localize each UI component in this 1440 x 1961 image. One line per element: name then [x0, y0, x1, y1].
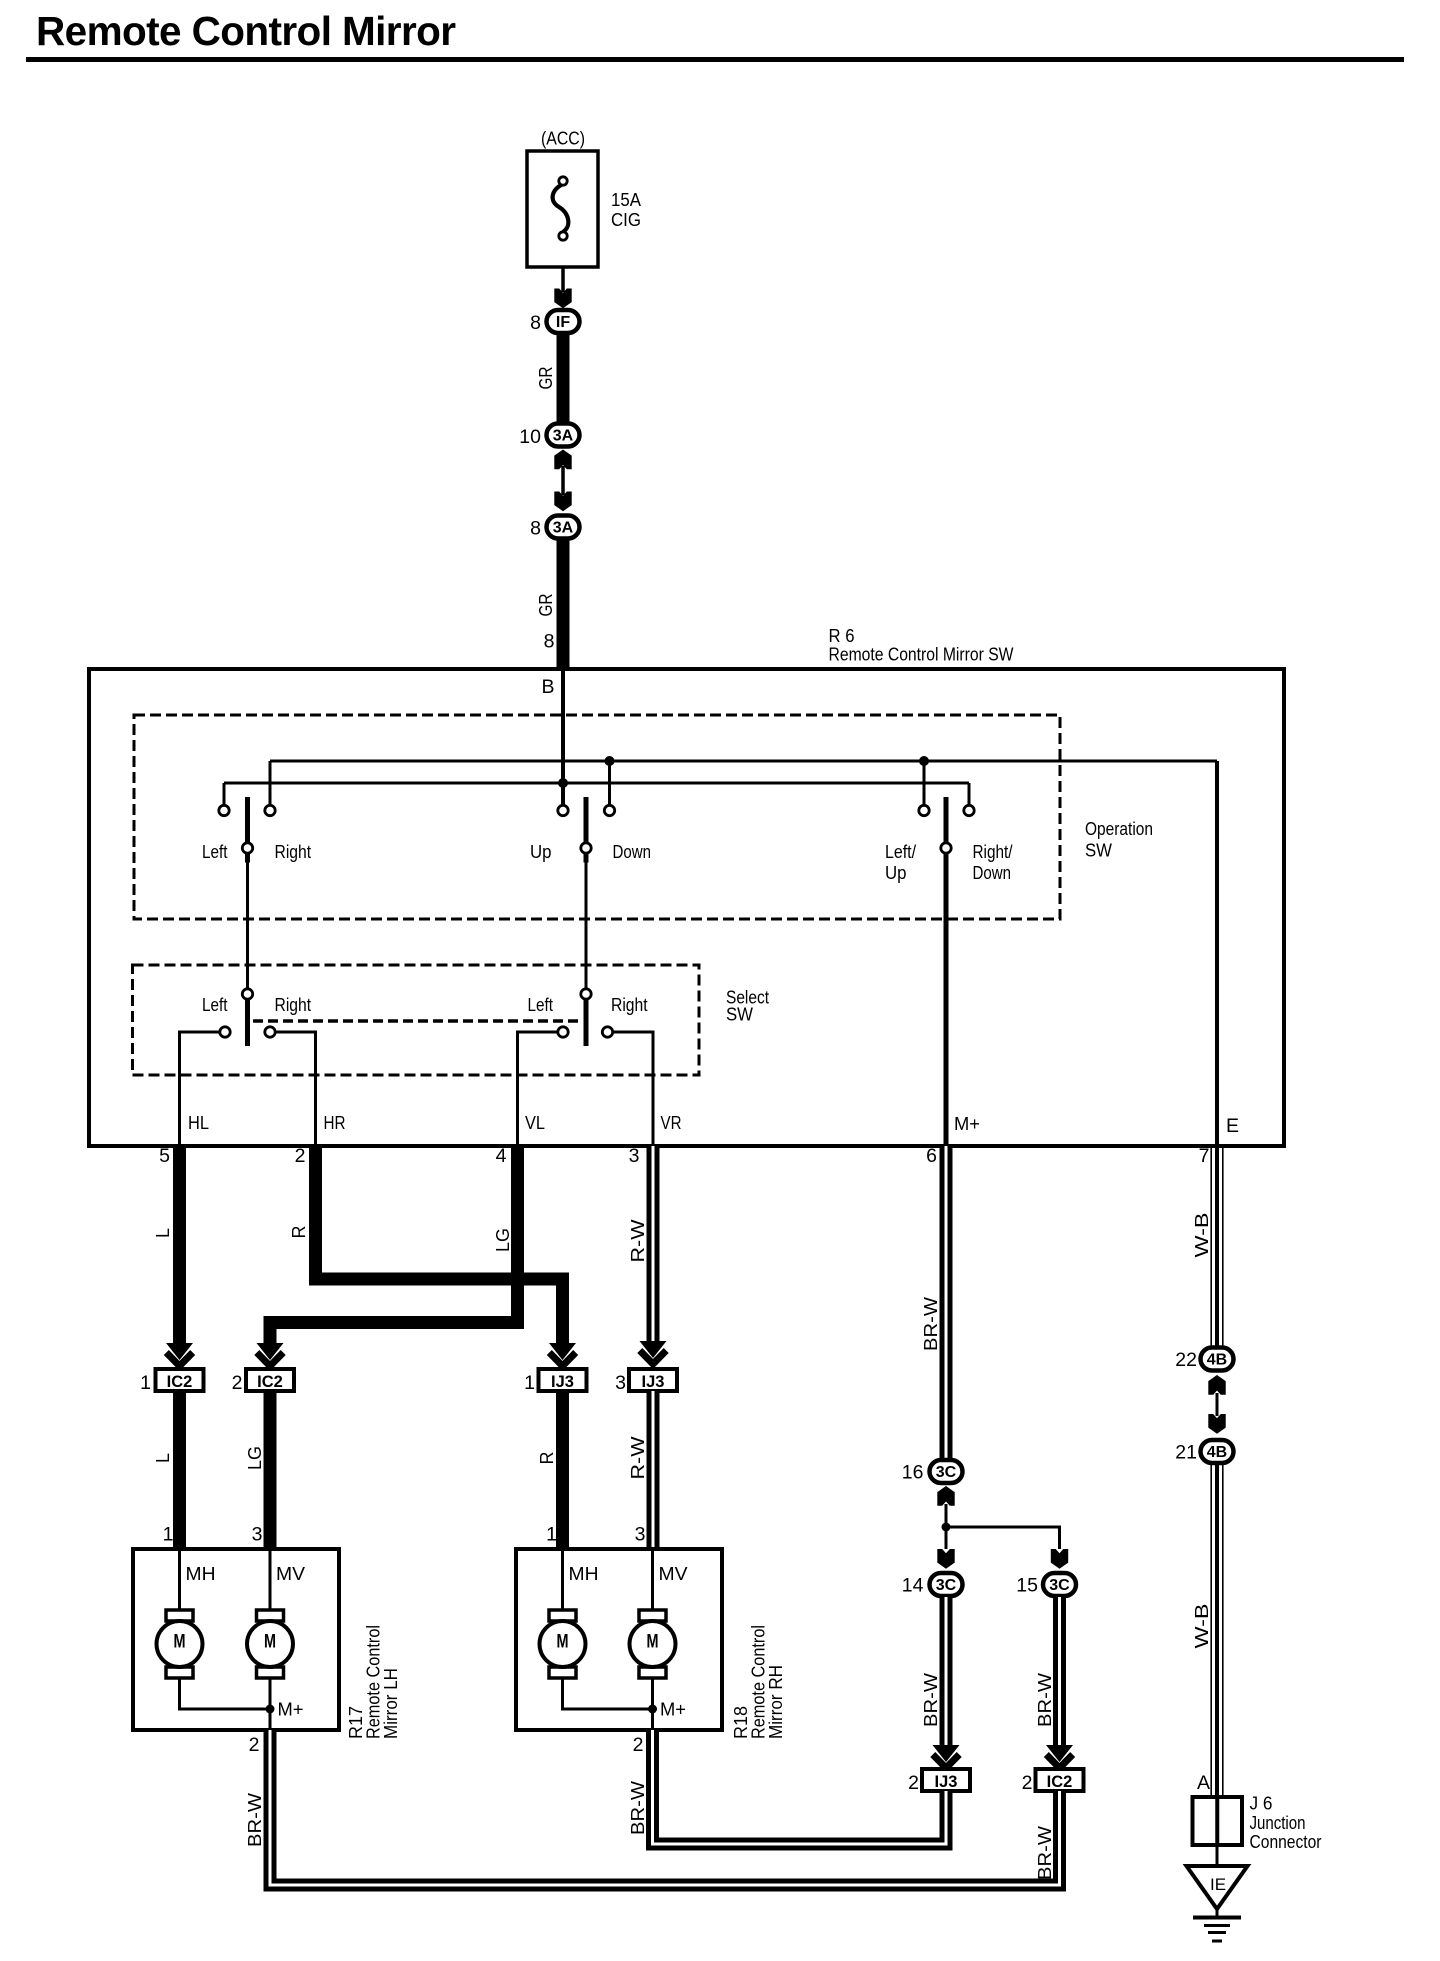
svg-text:VL: VL: [525, 1113, 545, 1133]
svg-text:3A: 3A: [553, 520, 574, 537]
svg-text:14: 14: [902, 1575, 924, 1597]
svg-text:L: L: [153, 1453, 173, 1463]
svg-text:IE: IE: [1210, 1875, 1226, 1894]
mirror LH box: [133, 1549, 339, 1730]
svg-text:4: 4: [496, 1145, 507, 1167]
ground bars: [1193, 1916, 1241, 1920]
wire LG thick crossover: [270, 1146, 518, 1343]
wire motor outputs LH: [180, 1678, 271, 1709]
svg-text:R-W: R-W: [628, 1436, 648, 1479]
svg-text:SW: SW: [726, 1005, 753, 1025]
svg-text:R 6: R 6: [829, 626, 855, 646]
motor M vertical RH: [639, 1610, 666, 1621]
designation R17 Remote Control Mirror LH: [345, 1625, 401, 1739]
ground IE triangle: [1187, 1866, 1248, 1909]
wire MH RH: [561, 1551, 564, 1612]
branch wire to 3C15: [946, 1527, 1060, 1549]
svg-text:MV: MV: [659, 1564, 688, 1584]
arrow into IJ3-2: [640, 1341, 667, 1358]
select contact circle L1: [220, 1027, 230, 1037]
svg-text:L: L: [153, 1228, 173, 1238]
pole circle LU-RD: [941, 843, 951, 853]
svg-text:Up: Up: [885, 863, 907, 883]
select SW dashed box: [133, 965, 700, 1075]
svg-text:MH: MH: [569, 1564, 599, 1584]
switch lever Up/Down: [584, 797, 589, 863]
connector 3C pin14: [930, 1573, 963, 1596]
svg-text:16: 16: [902, 1462, 924, 1484]
svg-text:Down: Down: [613, 842, 652, 862]
svg-text:BR-W: BR-W: [628, 1781, 648, 1835]
wire 3C16 to branch dot: [945, 1504, 948, 1529]
svg-text:3: 3: [252, 1524, 263, 1546]
svg-text:3C: 3C: [936, 1577, 957, 1594]
select lever 2: [584, 997, 589, 1046]
svg-text:R: R: [289, 1226, 309, 1239]
select contact circle L2: [558, 1027, 568, 1037]
svg-text:2: 2: [232, 1372, 243, 1394]
wire J6 to ground: [1216, 1845, 1219, 1866]
svg-text:BR-W: BR-W: [921, 1673, 941, 1727]
junction dot LeftUp: [919, 756, 929, 766]
contact circle Left/Up: [919, 805, 929, 815]
svg-text:Right: Right: [275, 995, 312, 1015]
connector 4B pin22: [1201, 1348, 1234, 1371]
designation R18 Remote Control Mirror RH: [730, 1625, 786, 1739]
svg-text:15: 15: [1016, 1575, 1038, 1597]
wire select L2 contact to VL: [518, 1032, 564, 1146]
svg-text:3: 3: [635, 1524, 646, 1546]
svg-text:IJ3: IJ3: [935, 1773, 958, 1791]
arrow into IJ3-1: [549, 1343, 576, 1360]
svg-text:M+: M+: [660, 1700, 686, 1720]
wire drop to Right contact: [269, 761, 272, 810]
svg-text:Junction: Junction: [1250, 1813, 1306, 1833]
wire MH LH: [178, 1551, 181, 1612]
connector IC2 pin2: [246, 1369, 294, 1391]
svg-text:W-B: W-B: [1192, 1604, 1212, 1649]
wire drop to Down contact: [608, 761, 611, 810]
svg-text:8: 8: [530, 518, 541, 540]
svg-text:21: 21: [1175, 1442, 1197, 1464]
connector 4B pin21: [1201, 1440, 1234, 1463]
wire drop to RightDown contact: [968, 783, 971, 810]
svg-text:BR-W: BR-W: [245, 1793, 265, 1847]
bus line 1 (to E): [270, 760, 1217, 763]
wire R-W double: [647, 1146, 660, 1341]
junction dot M+ RH: [648, 1705, 657, 1714]
motor M horizontal LH: [166, 1610, 193, 1621]
arrow into IC2-2: [257, 1343, 284, 1360]
arrow up below 4B22: [1208, 1375, 1225, 1395]
svg-text:Right/: Right/: [973, 842, 1013, 862]
wire lever1 to select: [246, 863, 249, 991]
fuse element symbol: [553, 184, 569, 232]
wire R-W to mirror: [647, 1391, 660, 1551]
svg-text:HR: HR: [324, 1113, 346, 1133]
pole circle UD: [581, 843, 591, 853]
wire MV RH: [651, 1551, 654, 1612]
wire drop to LeftUp contact: [923, 761, 926, 810]
wire GR (thick): [557, 333, 570, 423]
connector 3C pin16: [930, 1460, 963, 1483]
switch lever LeftUp/RightDown (to M+): [944, 797, 949, 1146]
svg-text:VR: VR: [661, 1113, 682, 1133]
svg-text:1: 1: [163, 1524, 174, 1546]
contact circle Left: [219, 805, 229, 815]
wire branch to 3C14: [945, 1527, 948, 1549]
operation SW dashed box: [134, 715, 1060, 919]
svg-text:IJ3: IJ3: [551, 1373, 574, 1391]
wire BR-W below 3C14: [940, 1597, 953, 1745]
svg-text:4B: 4B: [1207, 1352, 1227, 1369]
wire L to mirror: [173, 1391, 186, 1551]
svg-text:A: A: [1197, 1772, 1210, 1794]
motor M horizontal RH: [549, 1610, 576, 1621]
svg-text:22: 22: [1175, 1349, 1197, 1371]
arrow down above 4B21: [1208, 1414, 1225, 1434]
wire R thick crossover: [316, 1146, 563, 1343]
wire select L contact to HL: [180, 1032, 226, 1146]
svg-text:M+: M+: [954, 1114, 980, 1134]
svg-text:3: 3: [629, 1145, 640, 1167]
svg-text:1: 1: [524, 1372, 535, 1394]
connector IC2 pin2 bottom: [1036, 1769, 1084, 1791]
svg-text:Mirror LH: Mirror LH: [380, 1668, 401, 1739]
svg-text:(ACC): (ACC): [541, 129, 585, 149]
svg-text:GR: GR: [536, 366, 556, 389]
svg-text:6: 6: [926, 1145, 937, 1167]
select contact circle R2: [602, 1027, 612, 1037]
connector 3A pin8: [547, 516, 580, 539]
svg-text:BR-W: BR-W: [1035, 1673, 1055, 1727]
connector IC2 pin1: [156, 1369, 204, 1391]
wire drop to Left contact: [223, 783, 226, 810]
svg-text:Left: Left: [202, 842, 228, 862]
svg-text:R-W: R-W: [628, 1219, 648, 1262]
svg-text:3C: 3C: [1049, 1577, 1070, 1594]
svg-text:W-B: W-B: [1192, 1213, 1212, 1258]
wire motor outputs RH: [563, 1678, 653, 1709]
select pole circle 2: [581, 989, 591, 999]
connector IF: [547, 310, 580, 333]
select pole circle 1: [242, 989, 252, 999]
motor M vertical LH: [257, 1610, 284, 1621]
svg-text:CIG: CIG: [611, 210, 641, 230]
svg-text:MV: MV: [276, 1564, 305, 1584]
svg-text:8: 8: [544, 631, 555, 653]
svg-text:7: 7: [1199, 1145, 1210, 1167]
svg-text:SW: SW: [1085, 841, 1112, 861]
wire select R contact to HR: [270, 1032, 316, 1146]
mechanical link dashed: [253, 1019, 578, 1022]
svg-text:2: 2: [908, 1772, 919, 1794]
wire BR-W LH mirror to IC2: [270, 1730, 1060, 1885]
svg-text:Remote Control Mirror: Remote Control Mirror: [36, 8, 456, 54]
wire fuse to IF: [561, 267, 565, 292]
svg-text:3C: 3C: [936, 1464, 957, 1481]
wire BR-W below 3C15: [1053, 1597, 1066, 1745]
arrow down into 3C14: [937, 1549, 954, 1569]
svg-text:IF: IF: [556, 314, 570, 331]
connector IJ3 pin2: [922, 1769, 970, 1791]
svg-text:LG: LG: [493, 1228, 513, 1252]
wire BR-W from M+: [940, 1146, 953, 1459]
wire between 4B: [1216, 1393, 1219, 1416]
wire select R2 contact to VR: [608, 1032, 654, 1146]
contact circle Up: [558, 805, 568, 815]
arrow down above 3A: [554, 492, 571, 512]
select contact circle R1: [265, 1027, 275, 1037]
arrow into IF: [554, 289, 571, 309]
arrow up below 3A: [554, 450, 571, 470]
wire LG to mirror: [264, 1391, 277, 1551]
svg-text:Connector: Connector: [1250, 1832, 1322, 1852]
svg-text:1: 1: [140, 1372, 151, 1394]
junction connector J6 box: [1193, 1797, 1243, 1845]
svg-text:2: 2: [295, 1145, 306, 1167]
svg-text:BR-W: BR-W: [1035, 1826, 1055, 1880]
wire L thick: [173, 1146, 186, 1343]
svg-text:2: 2: [1022, 1772, 1033, 1794]
svg-text:IC2: IC2: [1047, 1773, 1073, 1791]
svg-text:5: 5: [159, 1145, 170, 1167]
svg-text:Left/: Left/: [885, 842, 916, 862]
svg-text:10: 10: [519, 426, 541, 448]
contact circle Down: [604, 805, 614, 815]
svg-text:Operation: Operation: [1085, 819, 1153, 839]
svg-text:GR: GR: [536, 593, 556, 616]
wire MV LH: [269, 1551, 272, 1612]
wire R to mirror: [556, 1391, 569, 1551]
wire lever2 to select: [585, 863, 588, 991]
svg-text:R: R: [537, 1452, 557, 1465]
switch lever Left/Right: [245, 797, 250, 863]
svg-text:M: M: [264, 1631, 276, 1653]
junction dot Down: [605, 756, 615, 766]
svg-text:E: E: [1226, 1115, 1239, 1137]
fuse 15A CIG box: [527, 151, 598, 267]
svg-text:Down: Down: [973, 863, 1012, 883]
arrow into IC2-1: [166, 1343, 193, 1360]
wire BR-W RH mirror to IJ3: [653, 1730, 947, 1844]
R6 remote control mirror switch box: [89, 669, 1284, 1146]
junction dot B-line2: [558, 778, 568, 788]
junction dot M+ LH: [266, 1705, 275, 1714]
wire B feed: [561, 671, 565, 810]
arrow into IC2 bottom: [1046, 1745, 1073, 1762]
svg-text:IJ3: IJ3: [642, 1373, 665, 1391]
svg-text:15A: 15A: [611, 190, 641, 210]
svg-text:Remote Control Mirror SW: Remote Control Mirror SW: [829, 645, 1014, 665]
svg-text:1: 1: [546, 1524, 557, 1546]
bus line 2: [224, 782, 969, 785]
svg-text:Right: Right: [275, 842, 312, 862]
svg-text:BR-W: BR-W: [921, 1297, 941, 1351]
wire GR lower (thick): [557, 539, 570, 671]
svg-text:Left: Left: [202, 995, 228, 1015]
svg-text:IC2: IC2: [167, 1373, 193, 1391]
title underline: [26, 57, 1404, 62]
mirror RH box: [516, 1549, 722, 1730]
junction dot branch: [942, 1523, 951, 1532]
contact circle Right/Down: [964, 805, 974, 815]
arrow up below 3C16: [937, 1486, 954, 1506]
svg-text:3A: 3A: [553, 428, 574, 445]
svg-text:Mirror RH: Mirror RH: [765, 1665, 786, 1739]
connector 3C pin15: [1043, 1573, 1076, 1596]
wire W-B upper: [1215, 1146, 1219, 1346]
svg-text:M+: M+: [278, 1700, 304, 1720]
connector IJ3 pin1: [539, 1369, 587, 1391]
pole circle LR: [242, 843, 252, 853]
connector IJ3 pin3: [629, 1369, 677, 1391]
svg-text:M: M: [174, 1631, 186, 1653]
svg-text:MH: MH: [186, 1564, 216, 1584]
svg-text:2: 2: [249, 1734, 260, 1756]
svg-text:Right: Right: [611, 995, 648, 1015]
svg-text:J 6: J 6: [1250, 1794, 1273, 1814]
svg-text:8: 8: [530, 312, 541, 334]
arrow down into 3C15: [1051, 1549, 1068, 1569]
svg-text:M: M: [557, 1631, 569, 1653]
svg-text:LG: LG: [245, 1446, 265, 1470]
svg-text:3: 3: [615, 1372, 626, 1394]
svg-text:2: 2: [633, 1734, 644, 1756]
wire W-B lower: [1215, 1464, 1219, 1797]
svg-text:Left: Left: [528, 995, 554, 1015]
svg-text:Up: Up: [530, 842, 552, 862]
svg-text:4B: 4B: [1207, 1444, 1227, 1461]
select lever 1: [245, 997, 250, 1046]
connector 3A pin10: [547, 424, 580, 447]
svg-text:M: M: [647, 1631, 659, 1653]
arrow into IJ3 bottom: [933, 1745, 960, 1762]
wire between 3A connectors: [561, 466, 565, 495]
svg-text:B: B: [541, 676, 554, 698]
svg-text:HL: HL: [188, 1113, 209, 1133]
ground stub: [1216, 1907, 1219, 1917]
svg-text:IC2: IC2: [257, 1373, 283, 1391]
wire E vertical: [1215, 761, 1219, 1146]
contact circle Right: [265, 805, 275, 815]
